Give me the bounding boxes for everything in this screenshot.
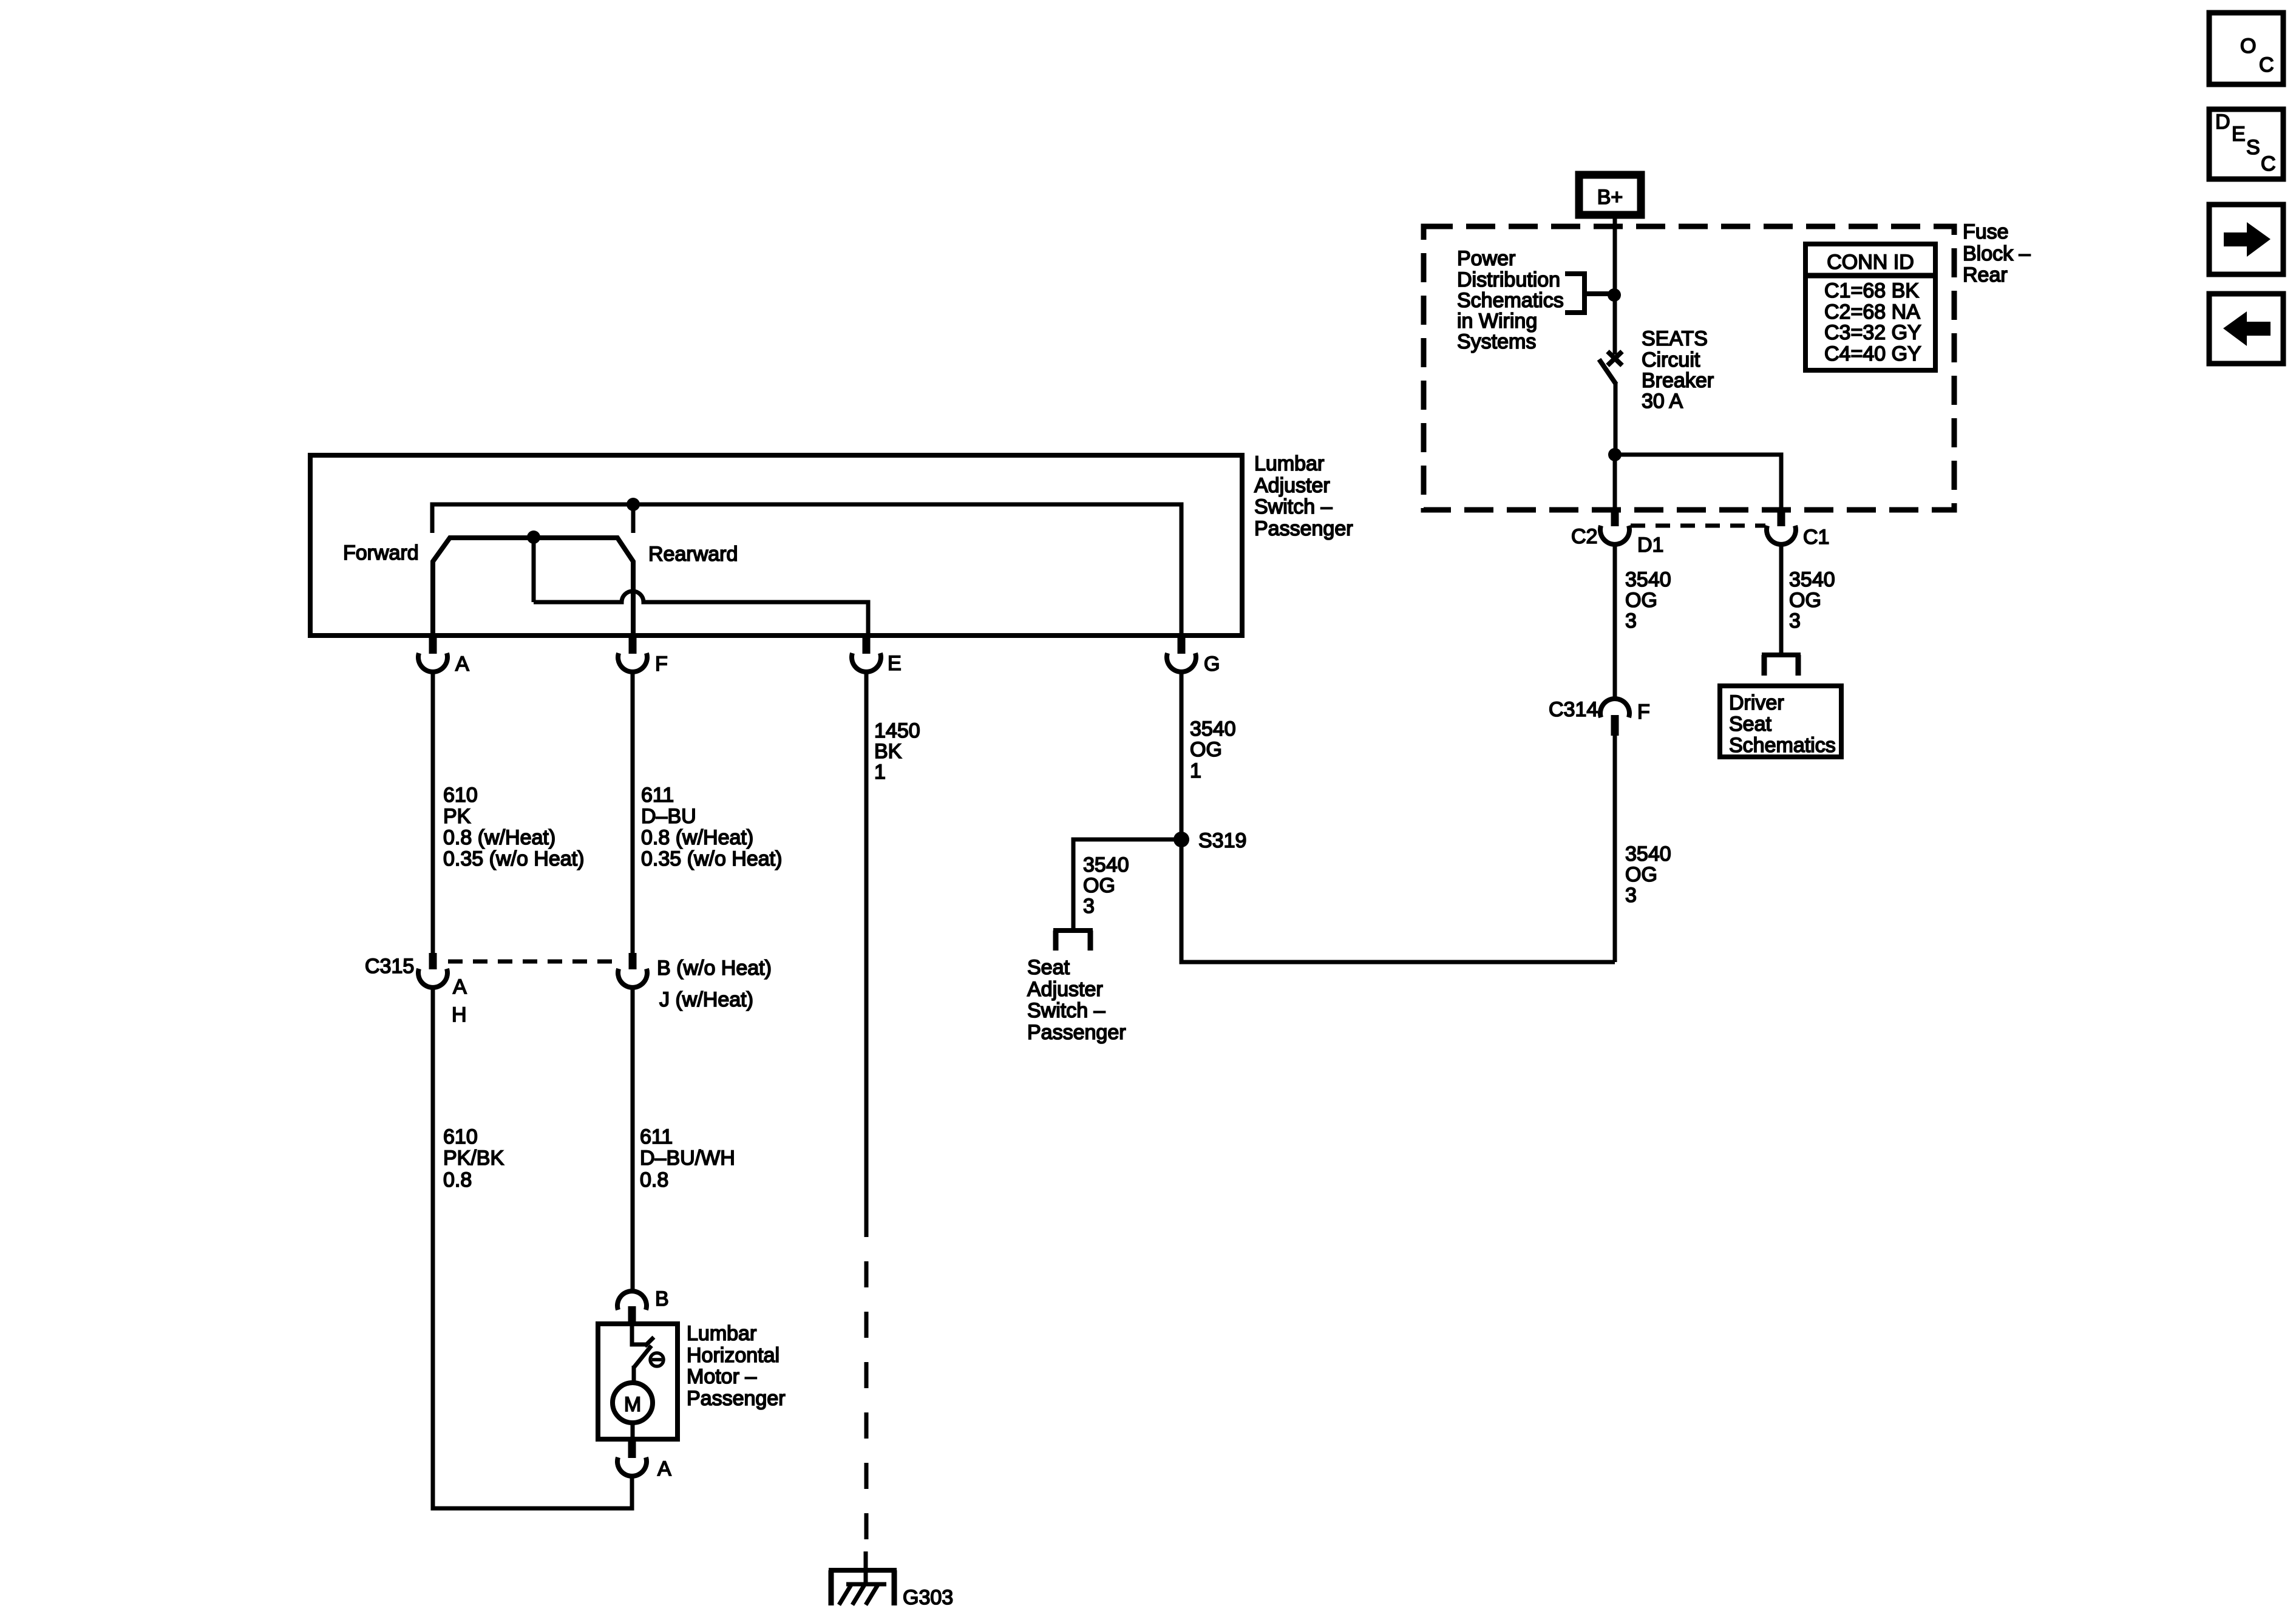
label wire 611 D-BU	[641, 784, 782, 870]
svg-text:C315: C315	[365, 955, 414, 978]
svg-text:C2: C2	[1571, 525, 1597, 548]
switch blade bridge A-F	[433, 538, 633, 634]
svg-text:C1: C1	[1803, 526, 1829, 549]
wire bridge tap down	[532, 538, 536, 602]
label C314	[1549, 698, 1598, 721]
off-page connector to seat adjuster switch	[1053, 931, 1093, 951]
label C315	[365, 955, 414, 978]
node S319	[1173, 832, 1189, 847]
wire to E with hop over F	[534, 591, 868, 634]
svg-text:Rear: Rear	[1963, 263, 2008, 286]
svg-text:CONN ID: CONN ID	[1827, 251, 1914, 274]
svg-text:C314: C314	[1549, 698, 1598, 721]
svg-text:Driver: Driver	[1729, 691, 1784, 714]
connector terminal F (switch)	[618, 637, 647, 672]
svg-text:D1: D1	[1637, 534, 1663, 557]
svg-text:OG: OG	[1789, 589, 1821, 612]
label wire 3540 OG 3 (C314)	[1625, 842, 1671, 907]
pin label B (w/o Heat)	[657, 957, 772, 980]
wire junction to C2	[1613, 455, 1617, 510]
svg-text:PK: PK	[443, 805, 471, 828]
svg-text:A: A	[657, 1457, 671, 1480]
label C2	[1571, 525, 1597, 548]
pin label E	[888, 652, 902, 675]
svg-text:M: M	[624, 1393, 641, 1416]
svg-text:B: B	[655, 1287, 669, 1310]
svg-text:H: H	[452, 1003, 467, 1026]
svg-text:Rearward: Rearward	[648, 543, 738, 566]
svg-text:Horizontal: Horizontal	[687, 1344, 779, 1367]
connector C315 pin A/H	[418, 953, 447, 988]
label wire 3540 OG 3 (C2-D1)	[1625, 568, 1671, 632]
svg-text:Power: Power	[1457, 247, 1515, 270]
svg-text:1: 1	[874, 761, 886, 784]
label wire 1450 BK 1	[874, 719, 920, 784]
svg-text:E: E	[888, 652, 902, 675]
label D1	[1637, 534, 1663, 557]
svg-text:0.35 (w/o Heat): 0.35 (w/o Heat)	[641, 847, 782, 870]
CONN ID table	[1805, 244, 1935, 370]
svg-text:Lumbar: Lumbar	[1254, 452, 1324, 475]
label S319	[1198, 829, 1246, 852]
label C1	[1803, 526, 1829, 549]
wire C315-A to motor-A return	[433, 988, 632, 1508]
svg-text:3: 3	[1625, 609, 1637, 632]
label Forward	[343, 541, 419, 564]
node rearward stationary contact tap	[627, 498, 640, 511]
svg-text:F: F	[1637, 700, 1650, 724]
motor internal breaker switch	[632, 1324, 654, 1383]
icon box DESC	[2209, 109, 2283, 179]
node feed junction	[1608, 288, 1621, 302]
svg-text:Breaker: Breaker	[1642, 369, 1714, 392]
label Power Distribution Schematics in Wiring Systems	[1457, 247, 1564, 353]
svg-text:O: O	[2240, 35, 2256, 58]
wire F to C315	[631, 673, 635, 953]
svg-text:OG: OG	[1625, 589, 1657, 612]
svg-text:3: 3	[1083, 895, 1095, 918]
node bridge tap to E	[527, 531, 540, 544]
svg-text:Forward: Forward	[343, 541, 419, 564]
svg-text:G303: G303	[903, 1586, 953, 1609]
pin label A (C315)	[453, 975, 467, 998]
svg-text:D–BU: D–BU	[641, 805, 696, 828]
label Lumbar Horizontal Motor - Passenger	[687, 1322, 786, 1410]
svg-text:BK: BK	[874, 740, 902, 763]
svg-text:610: 610	[443, 1125, 478, 1148]
connector motor pin B	[617, 1291, 647, 1324]
circuit breaker SEATS 30 A	[1599, 351, 1622, 455]
label F (C314)	[1637, 700, 1650, 724]
svg-text:Block –: Block –	[1963, 242, 2031, 265]
svg-text:S: S	[2246, 136, 2260, 159]
svg-text:C: C	[2261, 152, 2276, 175]
svg-text:Schematics: Schematics	[1729, 734, 1836, 757]
svg-text:3540: 3540	[1190, 717, 1236, 741]
svg-text:OG: OG	[1083, 874, 1115, 897]
svg-text:0.8: 0.8	[443, 1168, 472, 1192]
svg-text:A: A	[453, 975, 467, 998]
connector terminal G (switch)	[1167, 637, 1196, 672]
svg-text:610: 610	[443, 784, 478, 807]
label G303	[903, 1586, 953, 1609]
pin label B (motor)	[655, 1287, 669, 1310]
label wire 3540 OG 3 (S319 branch)	[1083, 853, 1129, 918]
node breaker output junction	[1608, 448, 1622, 461]
svg-text:D: D	[2215, 110, 2230, 134]
svg-text:3540: 3540	[1625, 842, 1671, 866]
svg-text:0.35 (w/o Heat): 0.35 (w/o Heat)	[443, 847, 584, 870]
wire B+ down to breaker	[1613, 219, 1617, 354]
svg-text:SEATS: SEATS	[1642, 327, 1708, 350]
svg-text:Switch –: Switch –	[1027, 999, 1106, 1022]
svg-text:Distribution: Distribution	[1457, 268, 1560, 291]
svg-text:C3=32 GY: C3=32 GY	[1824, 321, 1921, 344]
wire junction to C1	[1615, 455, 1781, 510]
svg-text:3540: 3540	[1083, 853, 1129, 876]
svg-text:3: 3	[1789, 609, 1801, 632]
svg-text:PK/BK: PK/BK	[443, 1147, 504, 1170]
svg-text:Passenger: Passenger	[1254, 517, 1353, 540]
label Lumbar Adjuster Switch - Passenger	[1254, 452, 1353, 540]
connector motor pin A	[617, 1442, 647, 1476]
fuse block rear dashed outline	[1424, 226, 1954, 510]
svg-text:C4=40 GY: C4=40 GY	[1824, 342, 1921, 365]
svg-text:1: 1	[1190, 759, 1201, 782]
motor M	[613, 1383, 653, 1437]
icon box arrow previous page	[2209, 294, 2283, 364]
svg-text:Fuse: Fuse	[1963, 220, 2009, 243]
svg-text:C: C	[2259, 53, 2274, 76]
svg-text:Adjuster: Adjuster	[1254, 474, 1330, 497]
svg-text:Schematics: Schematics	[1457, 289, 1564, 312]
wire E dashed to G303	[864, 1211, 869, 1551]
off-page connector to driver seat schematics	[1762, 655, 1801, 676]
svg-text:Circuit: Circuit	[1642, 348, 1700, 371]
connector C1	[1767, 510, 1796, 544]
svg-text:1450: 1450	[874, 719, 920, 742]
icon box arrow next page	[2209, 205, 2283, 274]
pin label J (w/Heat)	[659, 988, 753, 1011]
svg-text:611: 611	[640, 1125, 673, 1148]
label Rearward	[648, 543, 738, 566]
wire C314 down to S319 run	[1613, 734, 1617, 962]
battery feed B+ terminal	[1579, 175, 1641, 215]
svg-text:B (w/o Heat): B (w/o Heat)	[657, 957, 772, 980]
svg-text:Motor –: Motor –	[687, 1365, 756, 1388]
wire C1 to off-page	[1779, 545, 1784, 654]
svg-text:Lumbar: Lumbar	[687, 1322, 756, 1345]
label wire 610 PK/BK	[443, 1125, 504, 1192]
ground G303	[829, 1551, 897, 1605]
svg-text:Adjuster: Adjuster	[1027, 978, 1103, 1001]
connector terminal A (switch)	[418, 637, 447, 672]
switch internal bus G to contacts	[432, 504, 1181, 634]
svg-text:3: 3	[1625, 884, 1637, 907]
svg-text:J (w/Heat): J (w/Heat)	[659, 988, 753, 1011]
svg-text:B+: B+	[1597, 186, 1623, 209]
svg-text:3540: 3540	[1789, 568, 1835, 591]
svg-text:Passenger: Passenger	[687, 1387, 786, 1410]
svg-text:0.8 (w/Heat): 0.8 (w/Heat)	[443, 826, 555, 849]
svg-text:30 A: 30 A	[1642, 390, 1683, 413]
svg-text:Seat: Seat	[1027, 956, 1070, 979]
power distribution schematics bracket	[1565, 274, 1612, 313]
svg-text:D–BU/WH: D–BU/WH	[640, 1147, 735, 1170]
icon box OC (open circuit)	[2209, 13, 2283, 84]
svg-text:F: F	[655, 653, 668, 676]
label wire 610 PK	[443, 784, 584, 870]
svg-text:611: 611	[641, 784, 674, 807]
pin label H (C315)	[452, 1003, 467, 1026]
svg-text:0.8: 0.8	[640, 1168, 668, 1192]
wire E down (solid)	[864, 673, 869, 1211]
connector C2 pin D1	[1600, 510, 1629, 544]
label wire 611 D-BU/WH	[640, 1125, 735, 1192]
pin label A (motor)	[657, 1457, 671, 1480]
switch box Lumbar Adjuster Switch - Passenger	[310, 455, 1242, 636]
connector terminal E (switch)	[852, 637, 881, 672]
label wire 3540 OG 3 (C1)	[1789, 568, 1835, 632]
svg-text:0.8 (w/Heat): 0.8 (w/Heat)	[641, 826, 753, 849]
pin label F	[655, 653, 668, 676]
box Driver Seat Schematics	[1720, 686, 1841, 757]
svg-text:Switch –: Switch –	[1254, 495, 1333, 518]
wire A to C315	[431, 673, 435, 953]
label wire 3540 OG 1	[1190, 717, 1236, 782]
rearward stationary contact	[631, 504, 636, 533]
svg-text:E: E	[2232, 123, 2246, 146]
wire C2 to C314	[1613, 545, 1617, 699]
svg-text:OG: OG	[1625, 863, 1657, 886]
motor thermal element	[650, 1353, 664, 1366]
svg-text:S319: S319	[1198, 829, 1246, 852]
motor box Lumbar Horizontal Motor	[598, 1324, 678, 1439]
wire G down to S319	[1180, 673, 1184, 839]
dashed connector link C315	[448, 960, 618, 964]
svg-text:Systems: Systems	[1457, 330, 1536, 353]
pin label A	[455, 653, 469, 676]
svg-text:3540: 3540	[1625, 568, 1671, 591]
label SEATS Circuit Breaker 30 A	[1642, 327, 1714, 413]
svg-text:C1=68 BK: C1=68 BK	[1824, 279, 1919, 302]
pin label G	[1204, 653, 1220, 676]
label Fuse Block - Rear	[1963, 220, 2031, 286]
svg-text:Passenger: Passenger	[1027, 1021, 1126, 1044]
wire S319 branch to seat adjuster switch	[1073, 839, 1181, 930]
svg-text:G: G	[1204, 653, 1220, 676]
svg-text:A: A	[455, 653, 469, 676]
wire S319 to C314 run	[1181, 839, 1615, 962]
svg-text:in Wiring: in Wiring	[1457, 310, 1537, 333]
svg-text:OG: OG	[1190, 738, 1222, 761]
connector C315 pin B/J	[618, 953, 647, 988]
connector C314 pin F	[1600, 699, 1629, 736]
svg-text:C2=68 NA: C2=68 NA	[1824, 300, 1920, 324]
label Seat Adjuster Switch - Passenger	[1027, 956, 1126, 1044]
wire C315-B to motor-B	[631, 988, 635, 1292]
dashed connector link C2-C1	[1631, 524, 1765, 528]
svg-text:Seat: Seat	[1729, 713, 1771, 736]
